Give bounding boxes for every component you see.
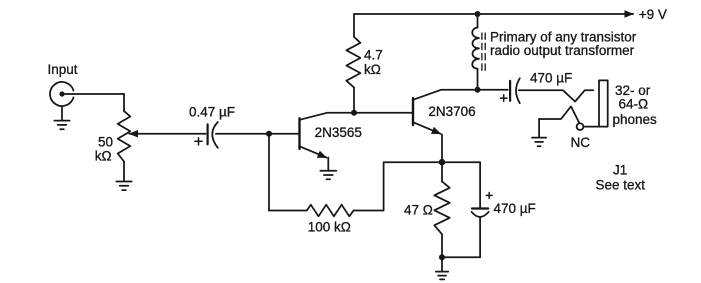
svg-text:2N3706: 2N3706 — [428, 104, 475, 119]
svg-text:100 kΩ: 100 kΩ — [308, 220, 351, 235]
svg-text:47 Ω: 47 Ω — [404, 203, 433, 218]
svg-text:J1: J1 — [613, 162, 627, 177]
svg-text:470 µF: 470 µF — [530, 71, 572, 86]
svg-text:phones: phones — [613, 112, 658, 127]
svg-text:470 µF: 470 µF — [494, 201, 536, 216]
svg-text:NC: NC — [571, 135, 591, 150]
svg-text:radio output transformer: radio output transformer — [490, 43, 635, 58]
svg-text:0.47 µF: 0.47 µF — [189, 104, 235, 119]
svg-text:2N3565: 2N3565 — [315, 125, 362, 140]
svg-text:4.7: 4.7 — [364, 48, 383, 63]
svg-text:50: 50 — [98, 135, 113, 150]
svg-text:See text: See text — [596, 177, 646, 192]
svg-text:Input: Input — [48, 62, 78, 77]
svg-text:+9 V: +9 V — [639, 7, 667, 22]
svg-text:kΩ: kΩ — [364, 62, 381, 77]
svg-text:64-Ω: 64-Ω — [619, 96, 649, 111]
svg-text:kΩ: kΩ — [95, 148, 112, 163]
